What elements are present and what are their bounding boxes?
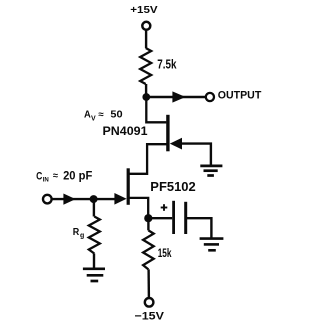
label Av ~ 50 [84,109,123,122]
wire input node to Rg [93,199,95,216]
polarity + of C1 [161,204,168,211]
svg-text:IN: IN [43,176,49,183]
svg-text:C: C [36,170,42,182]
terminal +15V [142,22,150,30]
resistor R3 15k [143,230,154,269]
ground (Rg) [83,269,105,281]
wire source node to R3 [147,218,149,230]
svg-text:50: 50 [110,110,122,121]
svg-text:−15V: −15V [135,311,165,323]
wire C1 to ground [187,218,211,237]
wire supply to R1 [145,30,147,48]
arrow output direction [172,91,185,102]
transistor Q2 source lead [128,198,148,218]
resistor R1 7.5k [140,48,151,84]
wire input [52,198,116,200]
svg-text:V: V [91,115,96,122]
svg-text:20 pF: 20 pF [63,169,92,183]
resistor Rg [89,217,100,254]
svg-text:R: R [73,227,80,238]
transistor Q1 source lead [129,144,168,174]
arrow input direction [63,194,75,205]
terminal OUTPUT [206,93,214,101]
wire Q1 gate to ground [181,144,211,165]
svg-text:OUTPUT: OUTPUT [218,90,262,102]
ground (Q1 gate) [200,166,222,176]
transistor Q1 gate arrow [170,138,182,150]
wire R3 to -15V [147,269,150,297]
svg-text:≈: ≈ [98,109,104,120]
wire R1 to drain node [145,84,147,97]
transistor Q1 channel bar [166,115,169,152]
ground (C1) [200,239,224,251]
wire Rg to ground [93,254,95,269]
terminal -15V [145,298,154,307]
svg-text:7.5k: 7.5k [157,58,177,72]
capacitor C1 left plate [172,201,175,234]
label Rg [73,227,85,239]
wire source node to C1 [148,217,172,219]
junction source node [144,214,152,222]
svg-text:15k: 15k [158,246,172,260]
svg-text:g: g [80,233,84,240]
svg-text:≈: ≈ [53,170,58,181]
wire to output [146,96,205,98]
junction input node [90,195,98,203]
junction drain node [142,93,150,101]
svg-text:PF5102: PF5102 [150,180,195,194]
transistor Q2 gate arrow [114,193,126,205]
transistor Q2 PF5102 channel bar [127,168,130,205]
svg-text:PN4091: PN4091 [103,124,148,138]
svg-text:+15V: +15V [130,5,158,16]
capacitor C1 right plate [184,202,187,234]
terminal input [43,195,52,204]
transistor Q1 PN4091 drain lead [146,97,166,122]
label Cin ~ 20 pF [36,169,92,184]
